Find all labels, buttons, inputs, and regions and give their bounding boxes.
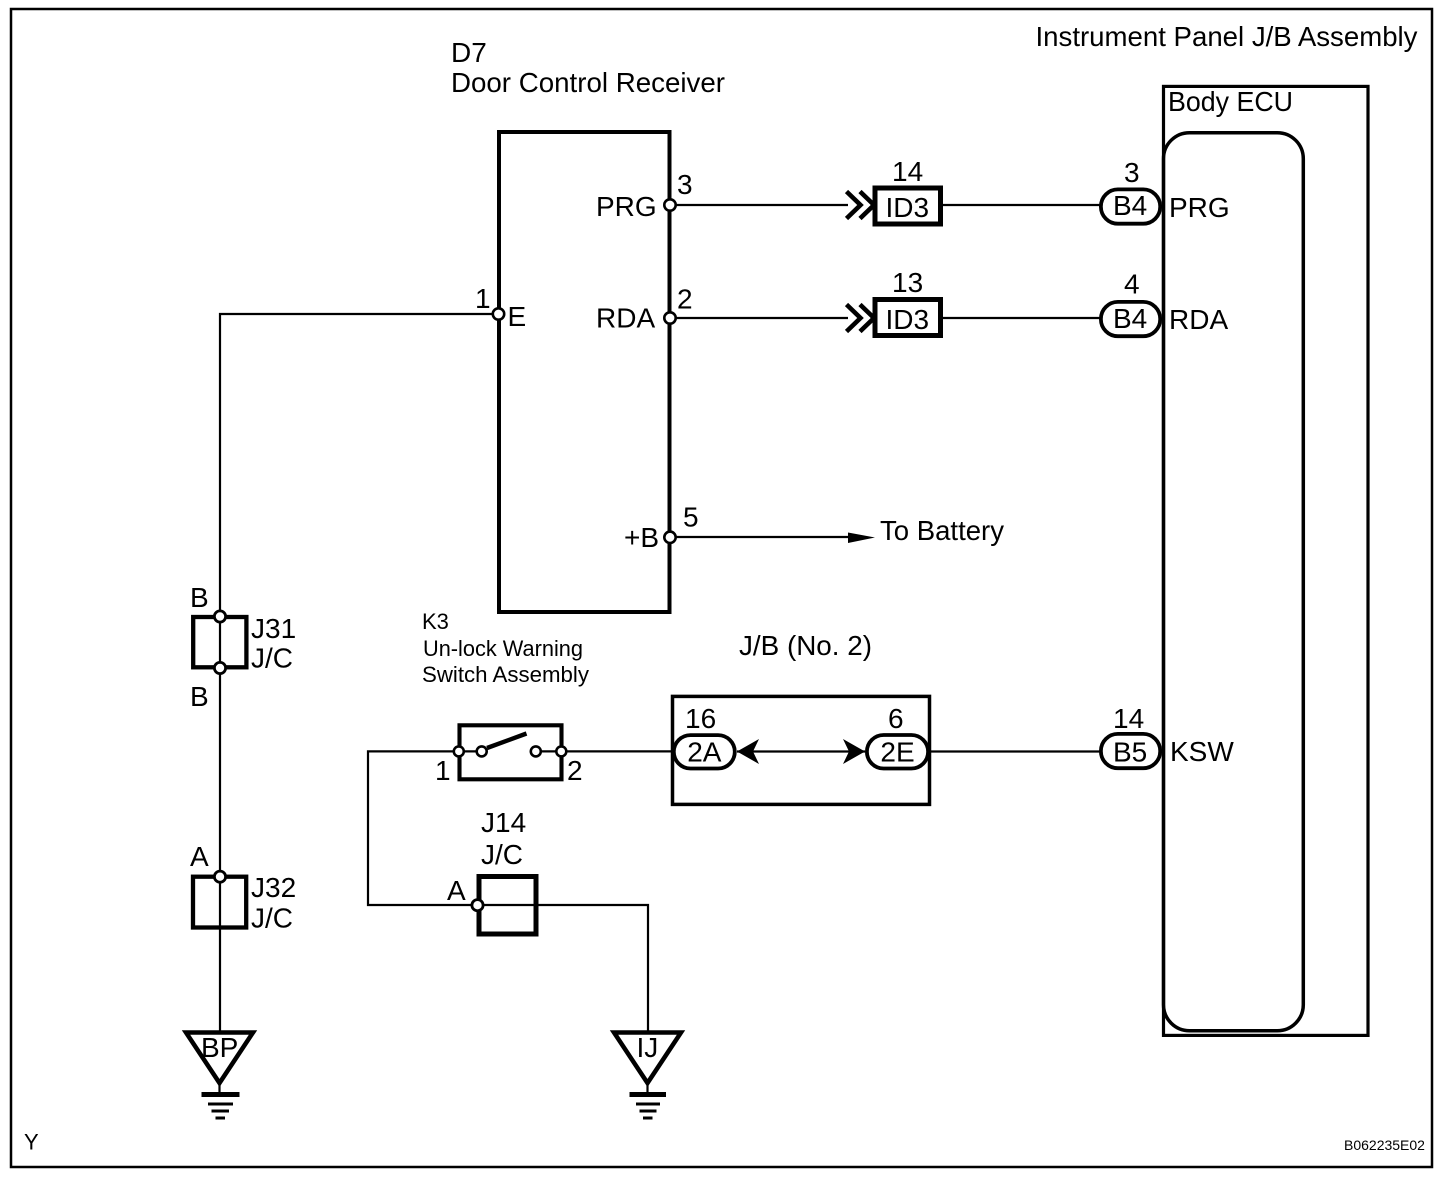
- svg-text:Instrument Panel J/B Assembly: Instrument Panel J/B Assembly: [1036, 21, 1418, 52]
- svg-text:4: 4: [1124, 269, 1140, 300]
- svg-text:J32: J32: [251, 872, 296, 903]
- svg-text:J31: J31: [251, 613, 296, 644]
- svg-text:RDA: RDA: [596, 303, 655, 334]
- svg-text:13: 13: [892, 267, 923, 298]
- svg-text:B: B: [190, 681, 209, 712]
- svg-text:6: 6: [888, 703, 904, 734]
- svg-text:1: 1: [435, 755, 451, 786]
- svg-text:2: 2: [567, 755, 583, 786]
- svg-text:A: A: [190, 841, 209, 872]
- svg-text:To Battery: To Battery: [880, 515, 1004, 546]
- svg-text:B4: B4: [1113, 303, 1147, 334]
- svg-text:2: 2: [677, 284, 693, 315]
- svg-text:5: 5: [683, 502, 699, 533]
- svg-text:PRG: PRG: [1169, 192, 1230, 223]
- svg-text:Un-lock Warning: Un-lock Warning: [423, 636, 583, 661]
- svg-text:3: 3: [677, 169, 693, 200]
- svg-text:PRG: PRG: [596, 191, 657, 222]
- svg-text:14: 14: [892, 156, 923, 187]
- svg-text:16: 16: [685, 703, 716, 734]
- svg-text:Body ECU: Body ECU: [1168, 86, 1293, 117]
- svg-text:BP: BP: [201, 1032, 238, 1063]
- svg-text:J/C: J/C: [481, 839, 523, 870]
- svg-text:ID3: ID3: [886, 304, 930, 335]
- svg-text:1: 1: [475, 283, 491, 314]
- svg-text:Door Control Receiver: Door Control Receiver: [451, 67, 725, 98]
- svg-text:Y: Y: [24, 1130, 39, 1155]
- svg-text:E: E: [508, 301, 527, 332]
- svg-text:A: A: [447, 875, 466, 906]
- svg-text:D7: D7: [451, 37, 487, 68]
- svg-text:2E: 2E: [880, 737, 914, 768]
- svg-text:2A: 2A: [687, 737, 722, 768]
- svg-text:ID3: ID3: [886, 192, 930, 223]
- svg-text:J/C: J/C: [251, 903, 293, 934]
- svg-text:3: 3: [1124, 157, 1140, 188]
- svg-text:B: B: [190, 582, 209, 613]
- svg-text:+B: +B: [624, 522, 659, 553]
- svg-text:J14: J14: [481, 807, 526, 838]
- svg-text:RDA: RDA: [1169, 304, 1228, 335]
- svg-text:KSW: KSW: [1170, 736, 1234, 767]
- svg-text:J/B (No. 2): J/B (No. 2): [739, 630, 872, 661]
- svg-text:Switch Assembly: Switch Assembly: [422, 662, 589, 687]
- svg-text:J/C: J/C: [251, 643, 293, 674]
- svg-text:K3: K3: [422, 609, 449, 634]
- svg-text:IJ: IJ: [637, 1032, 659, 1063]
- svg-text:14: 14: [1113, 703, 1144, 734]
- svg-text:B5: B5: [1113, 737, 1147, 768]
- svg-text:B062235E02: B062235E02: [1344, 1137, 1425, 1153]
- svg-text:B4: B4: [1113, 190, 1147, 221]
